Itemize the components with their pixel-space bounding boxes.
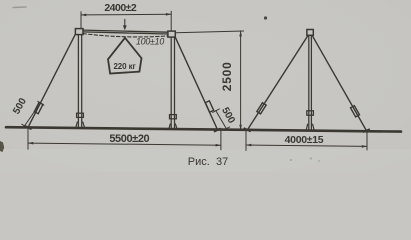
dim 4000 extension lines [246,130,367,150]
right post base [168,124,178,129]
ground [6,127,401,131]
dim 4000 line [246,145,367,146]
dim 5500 arrows [28,142,221,147]
stray scan dash top-left [13,6,26,9]
right anchor stake [215,129,221,132]
mast collar [307,111,314,115]
left turnbuckle [34,102,43,113]
mast right anchor stake [364,129,370,132]
mast left anchor stake [244,128,250,131]
paper background [0,0,411,172]
left guy wire [28,35,75,128]
dim 4000 arrows [246,144,367,148]
stray scan smudge bottom-left [0,141,4,152]
load pentagon 220 kg [108,38,142,74]
right post (double line) [171,37,174,129]
dim 2400 arrows [81,13,171,16]
left post collar [77,113,84,117]
sagged cable (dashed) [83,34,168,37]
dim 5500 line [28,143,221,145]
right 500 dim ticks [213,109,230,130]
right post collar [170,115,177,119]
right post cap square [168,31,175,37]
stray specks bottom [290,159,292,161]
sag arrow [124,19,126,27]
mast (double line) [309,35,312,130]
svg-text:Рис. 37: Рис. 37 [188,156,228,168]
mast base [305,124,315,130]
svg-text:2400±2: 2400±2 [104,2,137,14]
svg-text:2500: 2500 [220,61,234,91]
dim 2500 arrows [239,31,242,130]
svg-text:4000±15: 4000±15 [285,134,324,146]
left post (double line) [78,34,81,127]
right turnbuckle [205,101,213,112]
top beam (double line) [83,30,168,34]
right guy wire [175,37,218,130]
stray scan dot [264,16,267,19]
mast cap square [307,30,313,36]
dim 2400 line [81,13,171,16]
left anchor stake [25,126,31,129]
left post base [75,122,85,128]
svg-text:5500±20: 5500±20 [109,133,149,145]
left post cap square [75,29,83,35]
mast left turnbuckle [257,103,266,114]
dim 2500 vertical line [240,31,242,130]
dim 2400 extension lines [81,11,171,31]
dim 5500 extension lines [28,128,221,150]
left 500 dimension line [24,103,40,126]
mast right turnbuckle [351,106,360,117]
left 500 dim ticks [22,101,44,128]
right 500 dimension line [216,111,227,129]
svg-text:100±10: 100±10 [136,36,164,46]
mast right guy wire [312,36,366,131]
dim 2500 extension line (horizontal) [176,31,244,33]
mast left guy wire [247,36,308,130]
svg-text:220 кг: 220 кг [113,62,136,71]
